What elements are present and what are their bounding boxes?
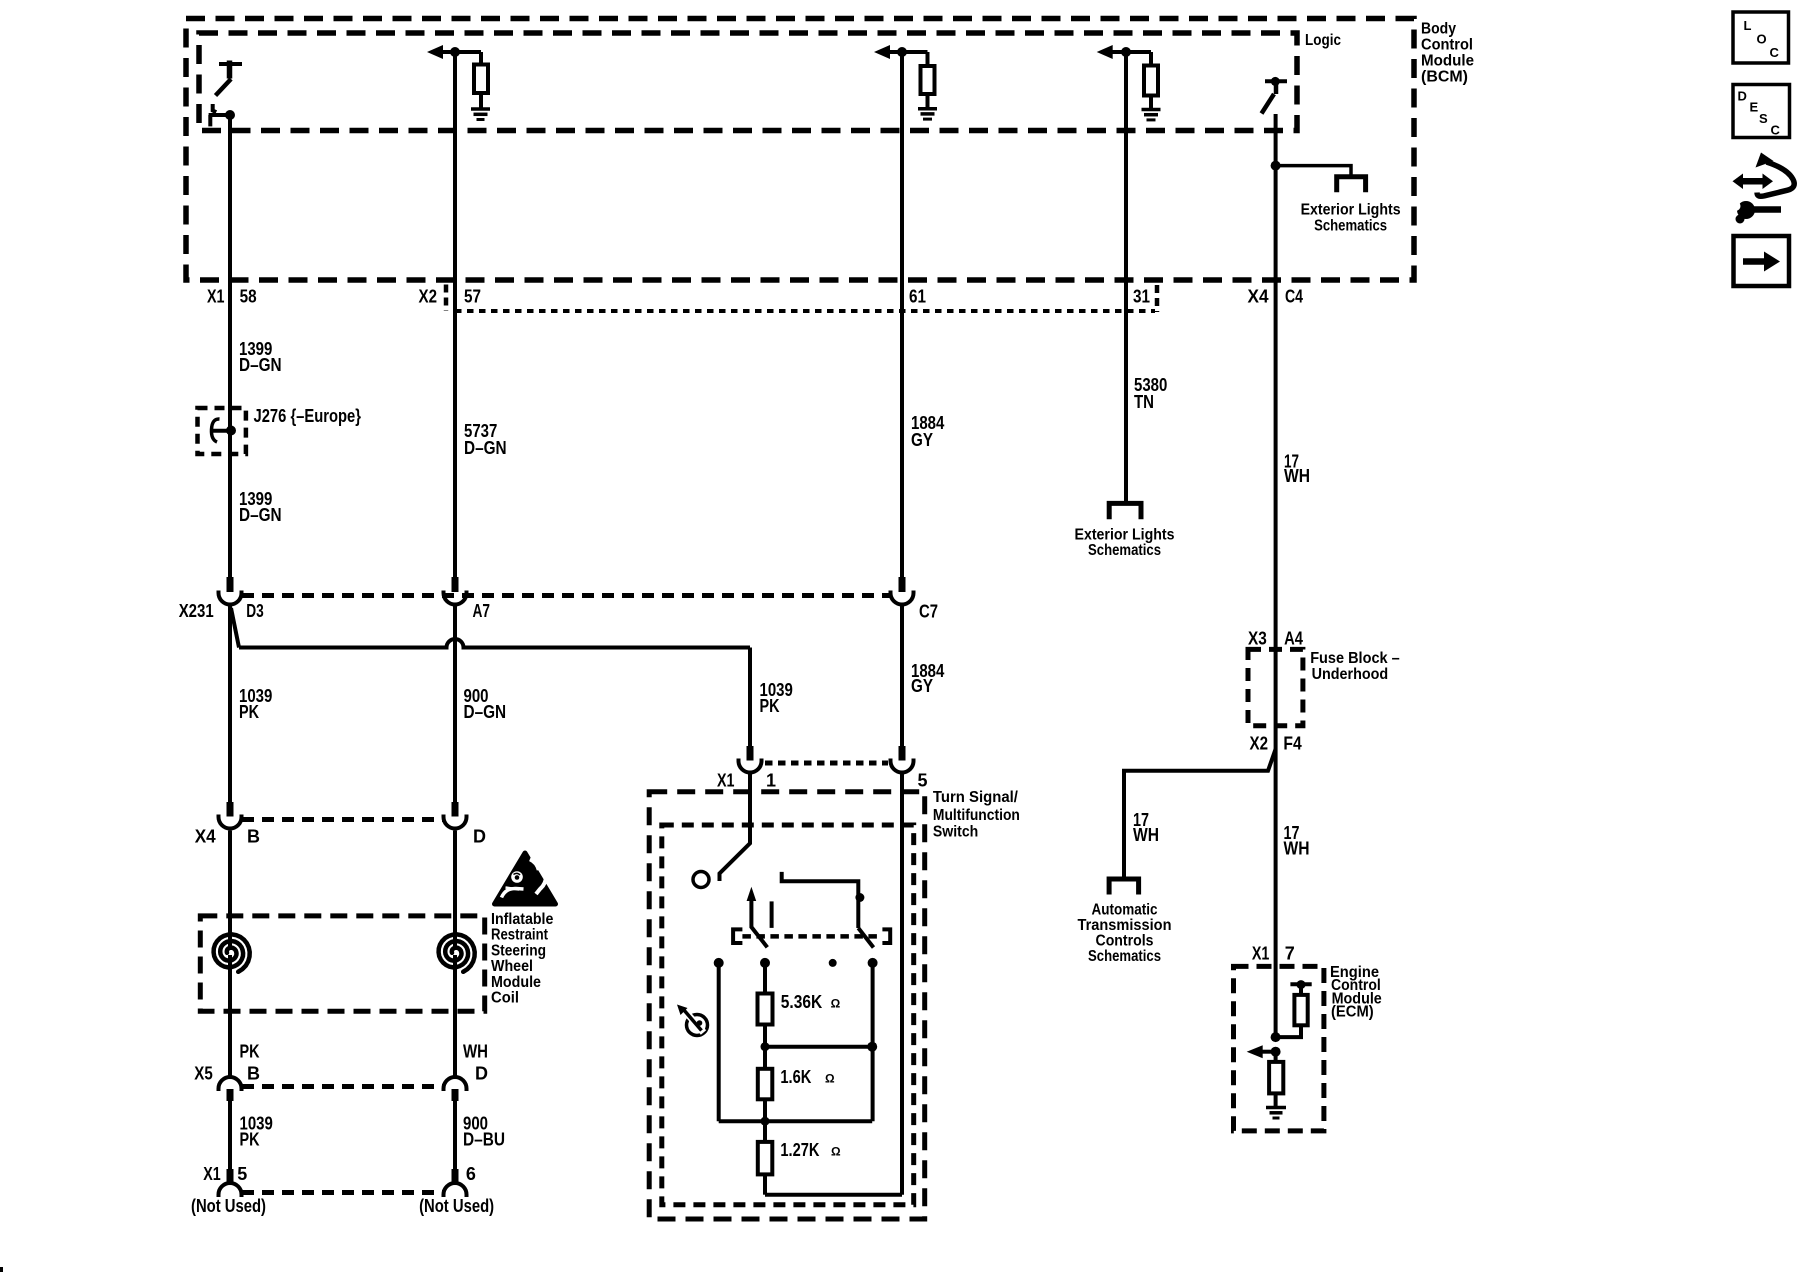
svg-text:C: C: [1771, 123, 1781, 138]
svg-text:1.6K: 1.6K: [780, 1067, 811, 1087]
svg-text:Inflatable: Inflatable: [491, 911, 553, 928]
svg-text:7: 7: [1285, 944, 1295, 964]
svg-text:J276 {–Europe}: J276 {–Europe}: [254, 406, 362, 426]
svg-text:X1: X1: [717, 771, 735, 791]
svg-text:Schematics: Schematics: [1088, 948, 1161, 965]
svg-text:Ω: Ω: [831, 997, 841, 1011]
svg-text:(Not Used): (Not Used): [419, 1196, 494, 1216]
svg-text:C: C: [1770, 45, 1780, 60]
svg-text:X2: X2: [419, 287, 438, 307]
svg-text:Exterior Lights: Exterior Lights: [1301, 202, 1401, 219]
svg-text:(BCM): (BCM): [1421, 69, 1468, 86]
svg-text:Transmission: Transmission: [1078, 917, 1172, 934]
svg-text:D–GN: D–GN: [239, 355, 282, 375]
svg-text:O: O: [1757, 32, 1767, 47]
svg-text:PK: PK: [240, 1042, 260, 1062]
svg-text:X3: X3: [1248, 629, 1267, 649]
svg-text:Coil: Coil: [491, 990, 519, 1007]
svg-text:X2: X2: [1250, 734, 1269, 754]
svg-text:X5: X5: [194, 1064, 213, 1084]
svg-text:Control: Control: [1421, 37, 1473, 54]
svg-text:57: 57: [464, 287, 481, 307]
svg-text:Logic: Logic: [1305, 32, 1341, 49]
svg-text:TN: TN: [1134, 392, 1154, 412]
svg-text:B: B: [247, 827, 260, 847]
svg-text:GY: GY: [911, 430, 933, 450]
svg-text:Controls: Controls: [1096, 933, 1154, 950]
svg-text:A7: A7: [473, 601, 491, 621]
svg-text:WH: WH: [1284, 839, 1310, 859]
svg-text:PK: PK: [240, 1130, 260, 1150]
svg-text:D: D: [1738, 89, 1747, 104]
svg-text:1: 1: [766, 771, 776, 791]
svg-text:Underhood: Underhood: [1312, 666, 1389, 683]
svg-text:58: 58: [240, 287, 257, 307]
svg-text:Automatic: Automatic: [1092, 902, 1158, 919]
svg-text:5: 5: [237, 1164, 247, 1184]
svg-text:(Not Used): (Not Used): [191, 1196, 266, 1216]
svg-text:F4: F4: [1283, 734, 1301, 754]
svg-text:31: 31: [1133, 287, 1150, 307]
svg-text:D: D: [473, 827, 486, 847]
svg-text:X1: X1: [203, 1164, 221, 1184]
svg-text:PK: PK: [760, 696, 780, 716]
svg-text:Body: Body: [1421, 21, 1456, 38]
svg-text:61: 61: [909, 287, 926, 307]
svg-text:GY: GY: [911, 676, 933, 696]
svg-text:5: 5: [918, 771, 928, 791]
svg-text:E: E: [1750, 100, 1759, 115]
svg-text:Module: Module: [491, 974, 541, 991]
svg-text:Wheel: Wheel: [491, 958, 533, 975]
svg-text:Ω: Ω: [831, 1145, 841, 1159]
svg-text:A4: A4: [1284, 629, 1303, 649]
svg-text:WH: WH: [463, 1042, 488, 1062]
svg-text:Turn Signal/: Turn Signal/: [933, 789, 1019, 806]
svg-text:Steering: Steering: [491, 942, 546, 959]
svg-text:WH: WH: [1133, 825, 1159, 845]
svg-text:Exterior Lights: Exterior Lights: [1075, 527, 1175, 544]
svg-text:6: 6: [466, 1164, 476, 1184]
svg-text:C7: C7: [919, 602, 938, 622]
svg-text:X231: X231: [179, 601, 214, 621]
svg-text:Schematics: Schematics: [1314, 218, 1387, 235]
svg-text:D–GN: D–GN: [464, 702, 507, 722]
svg-text:(ECM): (ECM): [1331, 1004, 1374, 1021]
svg-text:D: D: [475, 1064, 488, 1084]
svg-text:1.27K: 1.27K: [780, 1140, 819, 1160]
svg-text:D–GN: D–GN: [239, 505, 282, 525]
svg-text:5.36K: 5.36K: [781, 992, 822, 1012]
svg-text:C4: C4: [1285, 287, 1303, 307]
svg-text:D–BU: D–BU: [463, 1130, 505, 1150]
svg-text:X1: X1: [1252, 944, 1270, 964]
svg-text:L: L: [1744, 18, 1752, 33]
svg-text:X1: X1: [207, 287, 225, 307]
svg-text:PK: PK: [239, 702, 259, 722]
svg-text:X4: X4: [195, 827, 216, 847]
svg-text:S: S: [1759, 111, 1768, 126]
svg-text:B: B: [247, 1064, 260, 1084]
svg-text:WH: WH: [1284, 466, 1310, 486]
svg-text:D–GN: D–GN: [464, 438, 507, 458]
svg-text:Ω: Ω: [825, 1072, 835, 1086]
svg-text:Multifunction: Multifunction: [933, 807, 1020, 824]
svg-text:Fuse Block –: Fuse Block –: [1310, 650, 1400, 667]
svg-text:D3: D3: [246, 601, 263, 621]
svg-text:Restraint: Restraint: [491, 927, 549, 944]
svg-text:X4: X4: [1248, 287, 1269, 307]
svg-text:Schematics: Schematics: [1088, 542, 1161, 559]
svg-text:Module: Module: [1421, 53, 1474, 70]
svg-text:Switch: Switch: [933, 824, 978, 841]
